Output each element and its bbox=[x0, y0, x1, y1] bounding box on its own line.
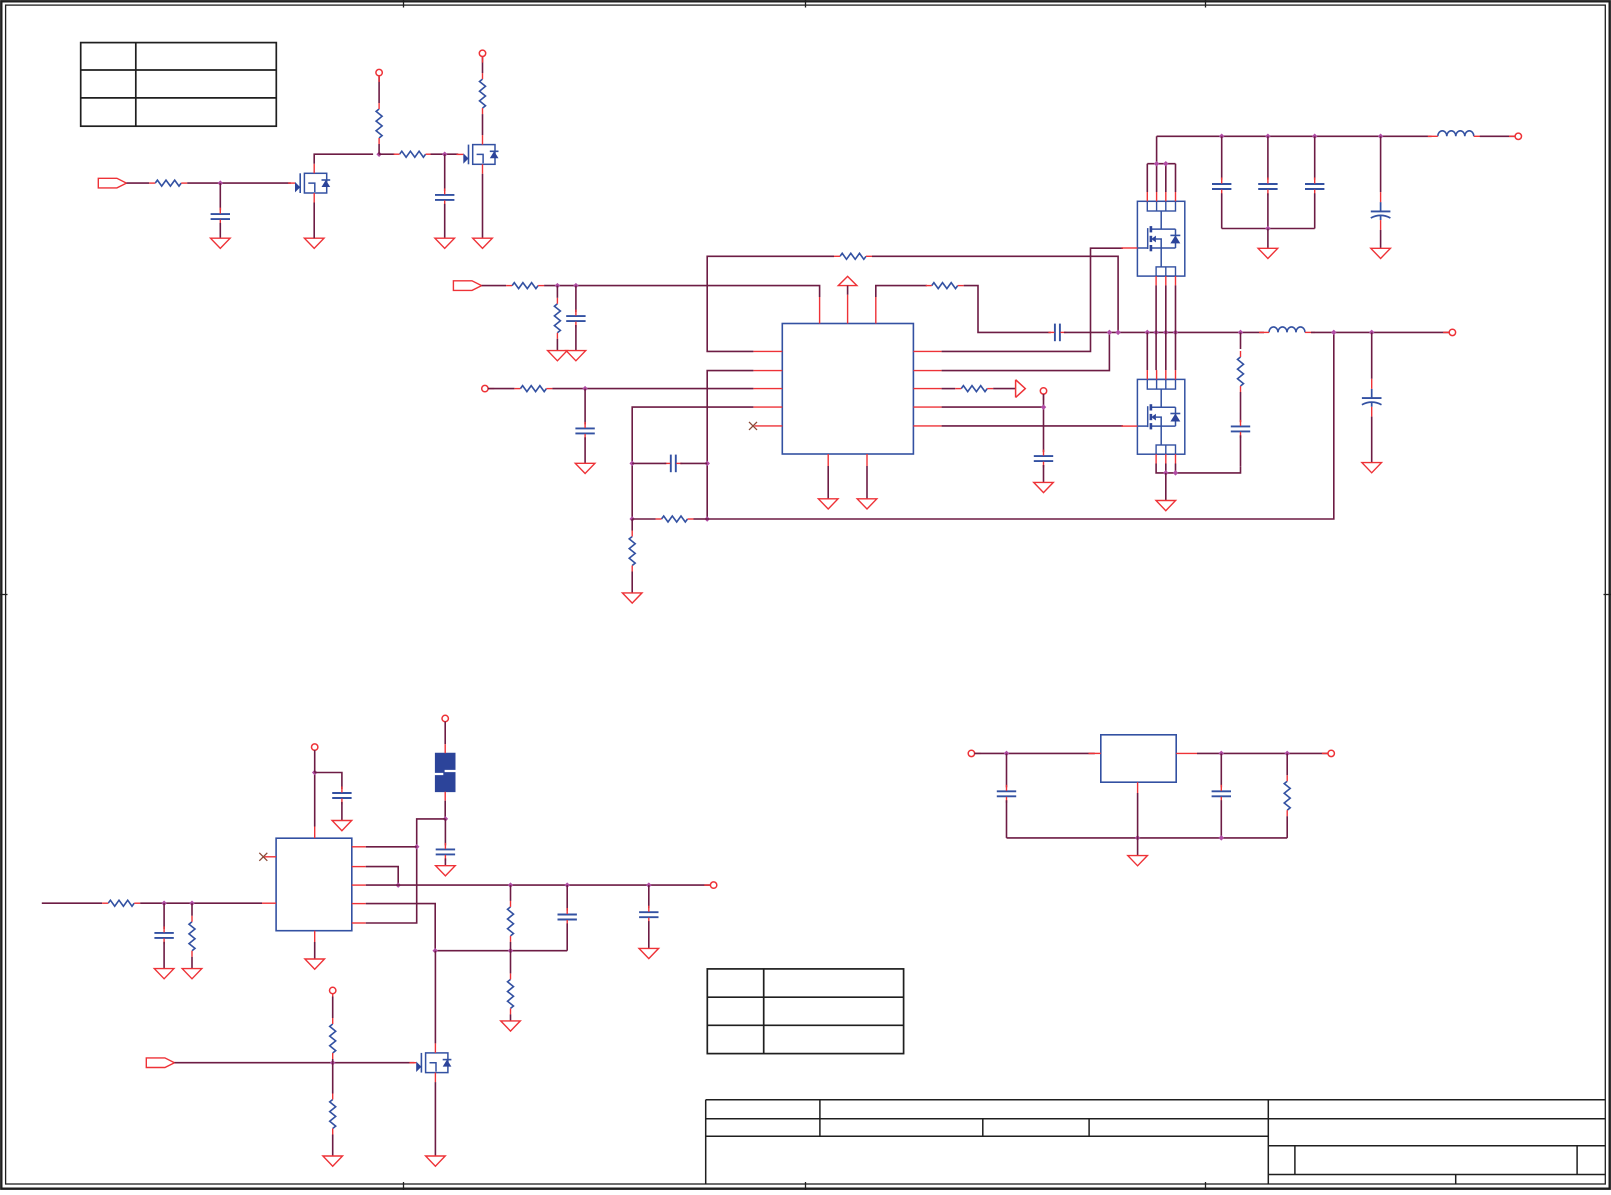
ground below C16 bbox=[436, 866, 456, 876]
node AO junction bbox=[330, 1060, 336, 1066]
node AI junction bbox=[395, 882, 401, 888]
wire R10 to ground bbox=[631, 572, 633, 593]
wire C8 drop bbox=[1221, 136, 1223, 179]
capacitor C10 bbox=[1305, 178, 1324, 196]
wire input stub to R14 bbox=[42, 902, 102, 904]
wire power arrow stem bbox=[847, 286, 849, 295]
U4 pin stubs bbox=[1089, 753, 1198, 793]
wire snubber top bbox=[1240, 332, 1242, 349]
wire C16 to ground bbox=[444, 858, 446, 865]
node I junction bbox=[629, 516, 635, 522]
wire AO to R19 bbox=[332, 1063, 334, 1094]
node AC junction bbox=[1173, 470, 1179, 476]
stub J10 bbox=[1322, 752, 1328, 754]
wire R3 to node B bbox=[378, 144, 380, 154]
wire U1 left pin1 loop bbox=[707, 256, 834, 351]
stub J1 bbox=[488, 388, 494, 390]
wire R20 top bbox=[1286, 753, 1288, 775]
ground below U3 bbox=[305, 959, 325, 969]
wire C13 to ground bbox=[1371, 417, 1373, 463]
wire C9 drop bbox=[1267, 136, 1269, 179]
wire P1 to R1 bbox=[127, 182, 150, 184]
terminal circle above R4 bbox=[479, 50, 485, 56]
wire R2 to Q2 gate bbox=[431, 153, 459, 155]
stub J2 bbox=[1043, 394, 1045, 400]
ground below C4 bbox=[575, 463, 595, 473]
U3 pin stubs bbox=[262, 827, 366, 943]
port P2 bbox=[453, 281, 481, 291]
node AS junction bbox=[1135, 835, 1141, 841]
resistor R2 bbox=[394, 151, 432, 157]
wire J8 to R18 bbox=[332, 997, 334, 1019]
node AK junction bbox=[564, 882, 570, 888]
capacitor C14 bbox=[154, 926, 173, 944]
wire C12 down bbox=[1240, 435, 1242, 466]
node AR junction bbox=[1284, 751, 1290, 757]
wire R4 top to terminal bbox=[482, 56, 484, 73]
wire U1 right pin1 to gate bbox=[942, 248, 1123, 351]
node AQ junction bbox=[1219, 751, 1225, 757]
wire R5 to U1 top pin bbox=[544, 286, 820, 297]
wire node F to C4 bbox=[584, 389, 586, 425]
transistor Q3 bbox=[409, 1043, 451, 1082]
ground below R15 bbox=[182, 969, 202, 979]
node O junction bbox=[1265, 134, 1271, 140]
ground below C13 bbox=[1362, 463, 1382, 473]
wire node B to R2 bbox=[379, 153, 395, 155]
resistor R3 pullup bbox=[376, 103, 382, 144]
U1 pin stubs bbox=[753, 295, 941, 466]
wire R9 left bbox=[632, 518, 655, 520]
wire U1 top pin3 right bbox=[876, 286, 927, 297]
transistor Q2 bbox=[457, 135, 499, 174]
wire Q5 source bar bbox=[1156, 464, 1240, 473]
wire C11 drop bbox=[1380, 136, 1382, 192]
node AM junction bbox=[432, 948, 438, 954]
node AE junction bbox=[189, 900, 195, 906]
wire R9 right bbox=[694, 518, 708, 520]
title block bbox=[706, 1100, 1606, 1184]
resistor R9 bbox=[656, 516, 694, 522]
inductor L1 input bead bbox=[1428, 131, 1484, 136]
wire AD to C14 bbox=[163, 903, 165, 929]
wire riser 4 bbox=[1175, 285, 1177, 370]
node AD junction bbox=[161, 900, 167, 906]
wire L2 to output bbox=[1311, 331, 1449, 333]
wire riser 2 bbox=[1155, 285, 1157, 370]
wire R8 to U1 left pin3 bbox=[552, 388, 753, 390]
resistor R5 bbox=[506, 283, 544, 289]
wire R1 to Q1 gate bbox=[187, 182, 291, 184]
wire node C down to C2 bbox=[444, 154, 446, 191]
resistor R12 bbox=[955, 386, 993, 392]
capacitor C18 bbox=[639, 906, 658, 924]
wire Q3 source to ground bbox=[434, 1082, 436, 1156]
resistor R18 bbox=[330, 1018, 336, 1059]
resistor R8 bbox=[514, 386, 552, 392]
wire feedback bus bbox=[707, 332, 1334, 519]
stub above R3 bbox=[378, 76, 380, 82]
terminal circle above R3 bbox=[376, 69, 382, 75]
wire C10 bottom bbox=[1314, 193, 1316, 228]
no-connect on U3 left pin bbox=[259, 853, 267, 861]
wire C19 bottom bbox=[1006, 800, 1008, 838]
resistor R17 bbox=[508, 973, 514, 1014]
capacitor C11 polarized bbox=[1371, 192, 1391, 230]
terminal circle J1 bbox=[482, 385, 488, 391]
capacitor C5 feedback bbox=[664, 455, 682, 473]
node AN junction bbox=[508, 948, 514, 954]
wire SW bus bbox=[1109, 331, 1264, 333]
node A junction bbox=[218, 180, 224, 186]
wire mid bus bbox=[435, 950, 567, 952]
capacitor C16 bbox=[436, 843, 455, 861]
stub J7 bbox=[704, 884, 710, 886]
wire Q5 source pins bbox=[1166, 464, 1176, 473]
wire U3 top pin up bbox=[314, 773, 316, 827]
wire C1 to ground bbox=[219, 223, 221, 238]
node AG junction bbox=[443, 816, 449, 822]
capacitor C17 bbox=[558, 908, 577, 926]
power arrow above U1 bbox=[838, 276, 857, 285]
ground below Q3 bbox=[426, 1156, 446, 1166]
resistor R6 to ground bbox=[554, 298, 560, 339]
ground below R19 bbox=[323, 1156, 343, 1166]
capacitor C1 bbox=[211, 208, 230, 226]
wire C11 to ground bbox=[1380, 230, 1382, 248]
wire fuse to node AG bbox=[444, 801, 446, 819]
port P1 bbox=[98, 178, 126, 188]
wire L1 to terminal bbox=[1480, 135, 1516, 137]
capacitor C15 bbox=[332, 787, 351, 805]
wire R7 to SW bus bbox=[872, 256, 1118, 332]
IC U1 bbox=[782, 324, 913, 455]
wire R15 to ground bbox=[191, 957, 193, 969]
terminal circle J4 bbox=[1449, 329, 1455, 335]
wire source bar to ground bbox=[1165, 473, 1167, 501]
ground below C18 bbox=[639, 948, 659, 958]
wire U1 right pin5 to gate bbox=[942, 425, 1123, 427]
ground below C2 bbox=[435, 238, 455, 248]
node AJ junction bbox=[508, 882, 514, 888]
resistor R16 bbox=[508, 901, 514, 942]
wire U3 right pin1 bbox=[366, 846, 417, 848]
wire C10 drop bbox=[1314, 136, 1316, 179]
wire C5 right bbox=[680, 462, 707, 464]
revision table top-left bbox=[81, 43, 277, 127]
wire C20 bottom bbox=[1220, 800, 1222, 838]
wire C3 to ground bbox=[575, 325, 577, 351]
capacitor C3 bbox=[566, 310, 585, 328]
fuse F1 bbox=[435, 744, 455, 801]
wire C18 to ground bbox=[648, 921, 650, 948]
ground below C11 bbox=[1371, 248, 1391, 258]
wire Q1 source to ground bbox=[313, 203, 315, 239]
wire U1 right pin3 to R12 bbox=[942, 388, 956, 390]
wire node D to R6 bbox=[556, 286, 558, 298]
capacitor C7 bbox=[1034, 450, 1053, 468]
ground below U4 bbox=[1128, 856, 1148, 866]
node C junction bbox=[442, 151, 448, 157]
wire J9 to U4 bbox=[974, 752, 1094, 754]
terminal circle J9 bbox=[968, 750, 974, 756]
ground below R10 bbox=[622, 593, 642, 603]
ground below Q2 bbox=[473, 238, 493, 248]
ground below C14 bbox=[154, 969, 174, 979]
wire R18 to node AO bbox=[332, 1059, 334, 1063]
capacitor C19 bbox=[997, 785, 1016, 803]
wire U1 bottom pin2 to ground bbox=[866, 466, 868, 499]
wire R20 bottom bbox=[1286, 816, 1288, 838]
wire R6 to ground bbox=[556, 339, 558, 351]
wire C14 to ground bbox=[163, 942, 165, 969]
terminal circle J10 bbox=[1328, 750, 1334, 756]
node J junction bbox=[704, 516, 710, 522]
resistor R4 pullup bbox=[480, 73, 486, 114]
wire C13 drop bbox=[1371, 332, 1373, 378]
node AA junction bbox=[1369, 330, 1375, 336]
wire riser gate bus bbox=[1146, 332, 1148, 370]
wire AE to R15 bbox=[191, 903, 193, 916]
ground below C3 bbox=[566, 351, 586, 361]
wire P2 to R5 bbox=[482, 285, 507, 287]
ground below input caps bbox=[1258, 248, 1278, 258]
capacitor C8 bbox=[1212, 178, 1231, 196]
node AP junction bbox=[1004, 751, 1010, 757]
stub J8 bbox=[332, 994, 334, 1000]
wire AG branch left-down bbox=[366, 819, 446, 923]
stub J6 bbox=[444, 722, 446, 728]
wire cap bus to ground bbox=[1267, 229, 1269, 249]
node B junction bbox=[376, 151, 382, 157]
wire U4 gnd pin bbox=[1137, 793, 1139, 838]
wire R11 to C6 bbox=[964, 286, 1051, 333]
capacitor C6 bootstrap bbox=[1048, 324, 1066, 342]
node W junction bbox=[1163, 330, 1169, 336]
resistor R20 bbox=[1284, 775, 1290, 816]
wire R16 top bbox=[510, 885, 512, 901]
node P junction bbox=[1312, 134, 1318, 140]
wire C17 top bbox=[566, 885, 568, 910]
node T junction bbox=[1115, 330, 1121, 336]
stub J5 bbox=[314, 750, 316, 756]
resistor R13 snubber bbox=[1238, 351, 1244, 392]
wire P3 to Q3 gate bbox=[175, 1062, 415, 1064]
wire C18 top bbox=[648, 885, 650, 908]
wire C19 top bbox=[1006, 753, 1008, 787]
wire node E to C3 bbox=[575, 286, 577, 313]
wire U1 right pin4 bbox=[942, 406, 1044, 408]
wire J6 to fuse bbox=[444, 722, 446, 745]
wire Q3 drain up bbox=[434, 951, 436, 1044]
wire input cap bus bbox=[1222, 228, 1315, 230]
node D junction bbox=[555, 283, 561, 289]
wire U3 right pin4 bbox=[366, 904, 435, 951]
wire C5 left bbox=[632, 462, 666, 464]
IC U4 regulator bbox=[1101, 735, 1176, 782]
resistor R19 bbox=[330, 1094, 336, 1135]
wire U3 bottom to ground bbox=[314, 942, 316, 959]
node H junction bbox=[704, 461, 710, 467]
terminal circle J5 bbox=[312, 744, 318, 750]
ground below C1 bbox=[211, 238, 231, 248]
power mosfet Q4 high-side bbox=[1122, 192, 1185, 285]
wire AG to C16 bbox=[444, 819, 446, 846]
wire regulator ground bus bbox=[1007, 837, 1288, 839]
capacitor C12 snubber bbox=[1231, 420, 1250, 438]
wire C8 bottom bbox=[1221, 193, 1223, 228]
wire AF to C15 bbox=[315, 773, 342, 790]
wire R17 to ground bbox=[510, 1014, 512, 1021]
resistor R10 to ground bbox=[629, 531, 635, 572]
stub above R4 bbox=[482, 56, 484, 62]
wire C7 to ground bbox=[1043, 465, 1045, 482]
node Y junction bbox=[1238, 330, 1244, 336]
node N junction bbox=[1219, 134, 1225, 140]
stub J9 bbox=[974, 752, 980, 754]
node AT junction bbox=[1219, 835, 1225, 841]
wire riser 3 bbox=[1165, 285, 1167, 370]
wire C6 to SW node bbox=[1064, 331, 1109, 333]
wire U4 out bbox=[1197, 752, 1328, 754]
ground below Q5 bbox=[1156, 501, 1176, 511]
ground below U1 pin1 bbox=[818, 499, 838, 509]
resistor R7 bbox=[834, 253, 872, 259]
wire Q2 source to ground bbox=[482, 174, 484, 238]
wire U1 left pin2 down bbox=[707, 371, 753, 519]
node G junction bbox=[629, 461, 635, 467]
stub J4 bbox=[1443, 331, 1449, 333]
node R junction bbox=[1265, 226, 1271, 232]
terminal circle J3 bbox=[1515, 133, 1521, 139]
wire C4 to ground bbox=[584, 437, 586, 463]
ground below C7 bbox=[1034, 482, 1054, 492]
ground below C15 bbox=[332, 821, 352, 831]
resistor R15 bbox=[189, 916, 195, 957]
capacitor C20 bbox=[1212, 785, 1231, 803]
wire R10 top bbox=[631, 519, 633, 531]
port P3 bbox=[146, 1058, 174, 1068]
off-page arrow bbox=[1016, 380, 1026, 398]
wire J2 down to C7 bbox=[1043, 394, 1045, 452]
wire J5 to node AF bbox=[314, 750, 316, 772]
resistor R14 bbox=[102, 900, 140, 906]
capacitor C9 bbox=[1258, 178, 1277, 196]
node U junction bbox=[1145, 330, 1151, 336]
ground below R6 bbox=[548, 351, 568, 361]
node AB junction bbox=[1163, 470, 1169, 476]
node E junction bbox=[573, 283, 579, 289]
wire C9 bottom bbox=[1267, 193, 1269, 228]
wire Q4 top pins to rail bbox=[1147, 136, 1175, 192]
resistor R1 bbox=[149, 180, 187, 186]
wire C2 to ground bbox=[444, 204, 446, 238]
wire C17 bottom bbox=[566, 923, 568, 950]
node M junction bbox=[1163, 161, 1169, 167]
node AF junction bbox=[312, 770, 318, 776]
transistor Q1 bbox=[288, 164, 330, 203]
wire U1 left pin4 bbox=[632, 407, 753, 519]
wire R14 to U3 bbox=[140, 902, 262, 904]
wire VIN rail bbox=[1157, 135, 1432, 137]
wire R16 bottom bbox=[510, 942, 512, 951]
terminal circle J8 bbox=[330, 987, 336, 993]
wire R4 to Q2 drain bbox=[482, 114, 484, 135]
ground below U1 pin2 bbox=[857, 499, 877, 509]
stub J3 bbox=[1509, 135, 1515, 137]
wire U1 bottom pin1 to ground bbox=[827, 466, 829, 499]
notes table bottom-middle bbox=[707, 969, 903, 1054]
node Q junction bbox=[1378, 134, 1384, 140]
resistor R11 bbox=[926, 283, 964, 289]
node X junction bbox=[1173, 330, 1179, 336]
power mosfet Q5 low-side bbox=[1122, 370, 1185, 463]
terminal circle J6 bbox=[442, 715, 448, 721]
inductor L2 output bbox=[1259, 327, 1315, 333]
wire node A down to C1 bbox=[219, 183, 221, 210]
wire Q1 drain up and right bbox=[314, 154, 373, 164]
wire U1 right pin2 to SW bbox=[942, 332, 1110, 370]
node S junction bbox=[1107, 330, 1113, 336]
wire C15 to ground bbox=[341, 802, 343, 821]
node Z junction bbox=[1331, 330, 1337, 336]
node F junction bbox=[582, 386, 588, 392]
wire R13 to C12 bbox=[1240, 392, 1242, 422]
node V junction bbox=[1153, 330, 1159, 336]
wire J1 to R8 bbox=[488, 388, 515, 390]
wire R3 top to terminal bbox=[378, 76, 380, 103]
ground below R17 bbox=[501, 1021, 521, 1031]
node K junction bbox=[1041, 404, 1047, 410]
wire gnd bus to ground bbox=[1137, 838, 1139, 856]
wire R17 top bbox=[510, 951, 512, 974]
wire C20 top bbox=[1220, 753, 1222, 787]
capacitor C4 bbox=[575, 422, 594, 440]
terminal circle J2 bbox=[1040, 388, 1046, 394]
terminal circle J7 bbox=[710, 882, 716, 888]
wire R19 to ground bbox=[332, 1135, 334, 1157]
no-connect on U1 left pin 5 bbox=[749, 422, 757, 430]
node L junction bbox=[1154, 161, 1160, 167]
wire R12 to arrow bbox=[993, 388, 1015, 390]
capacitor C13 polarized bbox=[1362, 379, 1382, 417]
capacitor C2 bbox=[435, 188, 454, 206]
wire output net bbox=[366, 884, 711, 886]
ground below Q1 bbox=[304, 238, 324, 248]
node AH junction bbox=[414, 844, 420, 850]
node AL junction bbox=[646, 882, 652, 888]
wire U3 right pin2 bbox=[366, 867, 398, 886]
IC U3 bbox=[276, 838, 352, 931]
